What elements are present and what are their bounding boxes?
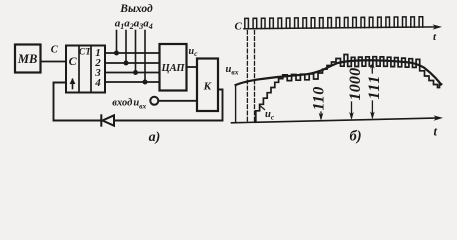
wire counter output 4 to ЦАП [105, 81, 160, 83]
svg-text:110: 110 [311, 86, 328, 110]
svg-text:МВ: МВ [17, 52, 37, 66]
block ЦАП (DAC) [160, 44, 187, 91]
wire counter output 3 to ЦАП [105, 72, 160, 74]
tap wire a2 [125, 31, 127, 64]
signal start edge u_вх [235, 85, 237, 122]
dashed timing line 1 [246, 31, 248, 123]
svg-text:а): а) [149, 130, 161, 145]
input terminal circle [150, 97, 158, 105]
junction dot a4 [143, 80, 148, 85]
bottom time axis [232, 118, 440, 123]
dashed timing line 2 [254, 31, 256, 123]
svg-text:t: t [434, 125, 438, 139]
diode VD [101, 115, 114, 125]
dynamic input arrow ↑ [70, 78, 76, 89]
wire input terminal to К [159, 100, 198, 102]
clock pulse train [245, 17, 423, 29]
svg-text:К: К [203, 81, 212, 93]
svg-text:С: С [51, 45, 59, 56]
svg-text:111: 111 [366, 75, 383, 100]
junction dot a2 [124, 61, 129, 66]
wire МВ to counter C input [41, 61, 66, 63]
arrow 1000 to axis [349, 102, 354, 120]
counter СТ block [66, 46, 105, 93]
feedback wire К to counter [115, 90, 223, 121]
block К (comparator) [197, 59, 218, 112]
wire counter output 2 to ЦАП [105, 62, 160, 64]
tap wire a3 [135, 31, 137, 73]
svg-text:б): б) [349, 129, 361, 145]
junction dot a3 [133, 70, 138, 75]
arrow 111 down to axis [370, 101, 375, 120]
wire diode to counter up input [54, 83, 102, 121]
tap wire a1 [116, 31, 118, 54]
junction dot a1 [114, 51, 119, 56]
staircase u_c [256, 55, 442, 122]
curve u_вх [236, 60, 441, 85]
svg-text:С: С [235, 21, 243, 33]
wire ЦАП to К [187, 66, 198, 68]
top time axis [244, 27, 438, 29]
arrow 111 up to staircase [370, 63, 375, 73]
wire counter output 1 to ЦАП [105, 52, 160, 54]
block МВ (multivibrator) [15, 45, 41, 73]
arrow 110 to axis [319, 112, 324, 121]
svg-text:1000: 1000 [347, 68, 364, 101]
svg-text:Выход: Выход [119, 3, 153, 15]
leader u_c [260, 106, 265, 110]
svg-text:4: 4 [94, 77, 101, 89]
svg-text:С: С [69, 54, 78, 68]
svg-text:СТ: СТ [79, 48, 92, 58]
tap wire a4 [144, 31, 146, 83]
svg-text:ЦАП: ЦАП [160, 63, 185, 74]
